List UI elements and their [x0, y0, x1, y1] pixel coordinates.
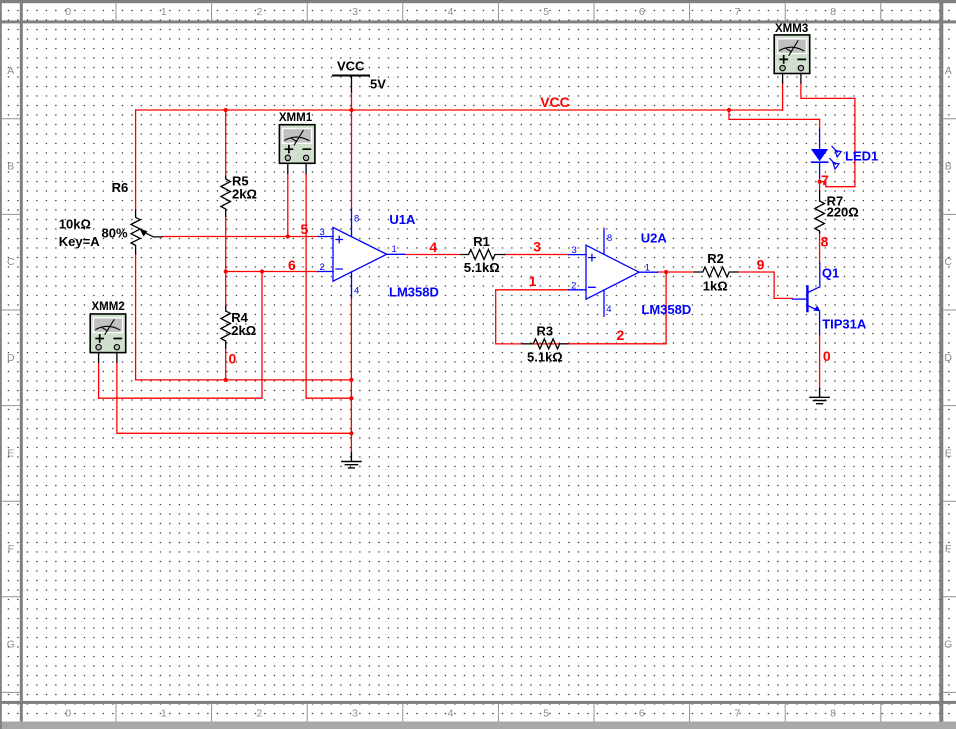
junction node 6a [224, 269, 228, 273]
svg-text:XMM3: XMM3 [775, 23, 808, 35]
svg-text:2: 2 [256, 6, 262, 18]
svg-text:7: 7 [734, 6, 740, 18]
wire R1 to U2A pin3 [505, 254, 569, 256]
svg-text:3: 3 [572, 245, 577, 256]
svg-text:80%: 80% [102, 225, 128, 240]
resistor R2 [694, 267, 737, 277]
svg-text:LM358D: LM358D [389, 284, 439, 299]
svg-text:5: 5 [301, 221, 309, 237]
svg-text:5: 5 [543, 6, 549, 18]
svg-text:VCC: VCC [337, 59, 365, 74]
wire XMM2 plus [98, 362, 100, 398]
ground left [342, 453, 361, 468]
svg-text:2: 2 [256, 708, 262, 720]
svg-text:8: 8 [607, 233, 612, 244]
resistor R5 [221, 176, 231, 216]
svg-text:1: 1 [161, 708, 167, 720]
svg-text:0: 0 [229, 351, 237, 367]
wire R6 top [135, 110, 137, 210]
svg-text:6: 6 [639, 6, 645, 18]
svg-text:2kΩ: 2kΩ [232, 186, 257, 201]
svg-text:2: 2 [320, 262, 325, 273]
svg-text:5V: 5V [370, 77, 386, 92]
junction node 9 feedback [664, 270, 668, 274]
wire net6 stub down [99, 272, 262, 399]
junction node VCC-LED branch [727, 108, 731, 112]
svg-text:A: A [945, 65, 952, 77]
resistor R1 [461, 250, 505, 260]
wire VCC symbol stub [351, 92, 353, 110]
svg-text:Q1: Q1 [822, 266, 839, 281]
svg-text:R2: R2 [707, 251, 724, 266]
wire LED branch [729, 110, 820, 129]
svg-text:R6: R6 [112, 180, 129, 195]
wire R3 left to pin2 [496, 290, 569, 344]
svg-text:10kΩ: 10kΩ [59, 217, 91, 232]
transistor Q1 [792, 263, 867, 335]
wire R2 to Q1 base [738, 272, 793, 298]
wire feedback down [522, 272, 666, 344]
svg-text:4: 4 [448, 708, 454, 720]
svg-text:3: 3 [533, 239, 541, 255]
svg-text:TIP31A: TIP31A [822, 317, 867, 332]
svg-text:3: 3 [352, 708, 358, 720]
wire Q1 emitter to ground [819, 335, 821, 389]
junction node 0b [349, 378, 353, 382]
junction node 0c [349, 396, 353, 400]
svg-text:8: 8 [830, 708, 836, 720]
svg-text:5.1kΩ: 5.1kΩ [527, 350, 563, 365]
svg-text:4: 4 [606, 304, 611, 315]
wire pin8 VCC [351, 110, 353, 209]
op-amp U1A [318, 209, 439, 299]
svg-text:C: C [7, 256, 15, 268]
svg-text:4: 4 [354, 286, 359, 297]
resistor R4 [221, 306, 231, 348]
svg-text:1: 1 [161, 6, 167, 18]
svg-text:0: 0 [65, 6, 71, 18]
svg-text:8: 8 [821, 234, 829, 250]
svg-text:Key=A: Key=A [59, 234, 100, 249]
wire VCC top bus [136, 109, 783, 111]
wire XMM3 plus [782, 83, 784, 110]
svg-text:B: B [7, 161, 14, 173]
junction node 6b [260, 269, 264, 273]
power VCC symbol [333, 59, 386, 93]
junction node 0d [349, 431, 353, 435]
svg-text:E: E [7, 447, 14, 459]
wire U1A out to R1 [405, 254, 462, 256]
multimeter XMM2 [90, 314, 126, 353]
svg-text:VCC: VCC [540, 94, 570, 110]
svg-text:1: 1 [392, 244, 397, 255]
svg-text:A: A [7, 65, 14, 77]
wire net6 to pin2 [226, 271, 318, 273]
svg-text:D: D [7, 352, 15, 364]
svg-text:G: G [944, 639, 952, 651]
svg-text:B: B [945, 161, 952, 173]
svg-text:7: 7 [734, 708, 740, 720]
potentiometer R6 [131, 210, 162, 253]
svg-text:2: 2 [571, 280, 576, 291]
wire R7 to Q1 collector [819, 233, 821, 263]
svg-text:4: 4 [448, 6, 454, 18]
svg-text:6: 6 [639, 708, 645, 720]
junction node VCC-R5 [224, 108, 228, 112]
wire XMM3 minus hook [801, 83, 855, 187]
wire R3 right [568, 343, 666, 345]
svg-text:9: 9 [757, 256, 765, 272]
ground right [810, 388, 829, 403]
svg-text:XMM2: XMM2 [92, 301, 125, 313]
svg-text:3: 3 [352, 6, 358, 18]
svg-text:F: F [8, 543, 14, 555]
svg-text:5: 5 [543, 708, 549, 720]
svg-text:R1: R1 [473, 234, 490, 249]
wire LED to R7 [819, 178, 821, 191]
svg-text:R3: R3 [537, 324, 554, 339]
svg-text:E: E [945, 447, 952, 459]
svg-text:LM358D: LM358D [641, 302, 691, 317]
wire R4 bottom [225, 348, 227, 380]
svg-text:3: 3 [320, 227, 325, 238]
wire XMM1 plus [287, 173, 289, 236]
svg-text:U1A: U1A [389, 212, 416, 227]
wire net0 bus [136, 379, 352, 381]
LED LED1 [811, 129, 878, 177]
svg-text:6: 6 [288, 257, 296, 273]
svg-text:8: 8 [354, 214, 359, 225]
svg-text:1kΩ: 1kΩ [703, 278, 728, 293]
svg-text:4: 4 [429, 239, 437, 255]
wire R5-R4 [225, 216, 227, 306]
svg-text:220Ω: 220Ω [827, 205, 859, 220]
svg-text:2: 2 [617, 327, 625, 343]
wire U2A out to R2 [658, 271, 695, 273]
resistor R3 [522, 339, 567, 349]
op-amp U2A [569, 228, 692, 317]
wire pin4 to ground [350, 298, 352, 453]
svg-text:8: 8 [830, 6, 836, 18]
svg-text:D: D [944, 352, 952, 364]
junction node 5 [286, 234, 290, 238]
svg-text:F: F [945, 543, 951, 555]
wire R5 top [225, 110, 227, 176]
svg-text:1: 1 [645, 263, 650, 274]
junction node 7 [818, 180, 822, 184]
svg-text:C: C [944, 256, 952, 268]
wire XMM2 minus [117, 362, 352, 433]
svg-text:0: 0 [823, 348, 831, 364]
junction node VCC-pin8 [349, 108, 353, 112]
svg-text:LED1: LED1 [845, 149, 878, 164]
svg-text:U2A: U2A [641, 231, 668, 246]
svg-text:0: 0 [65, 708, 71, 720]
svg-text:1: 1 [529, 273, 537, 289]
wire wiper to pin3 [162, 236, 318, 238]
junction node 0a [224, 378, 228, 382]
svg-text:2kΩ: 2kΩ [231, 323, 256, 338]
multimeter XMM3 [774, 35, 810, 74]
resistor R7 [815, 191, 825, 233]
wire XMM1 minus [306, 173, 351, 398]
svg-text:5.1kΩ: 5.1kΩ [464, 260, 500, 275]
svg-text:XMM1: XMM1 [279, 112, 313, 124]
svg-text:G: G [7, 639, 15, 651]
multimeter XMM1 [279, 125, 315, 164]
svg-text:7: 7 [821, 172, 829, 188]
wire R6 bottom [135, 254, 137, 380]
